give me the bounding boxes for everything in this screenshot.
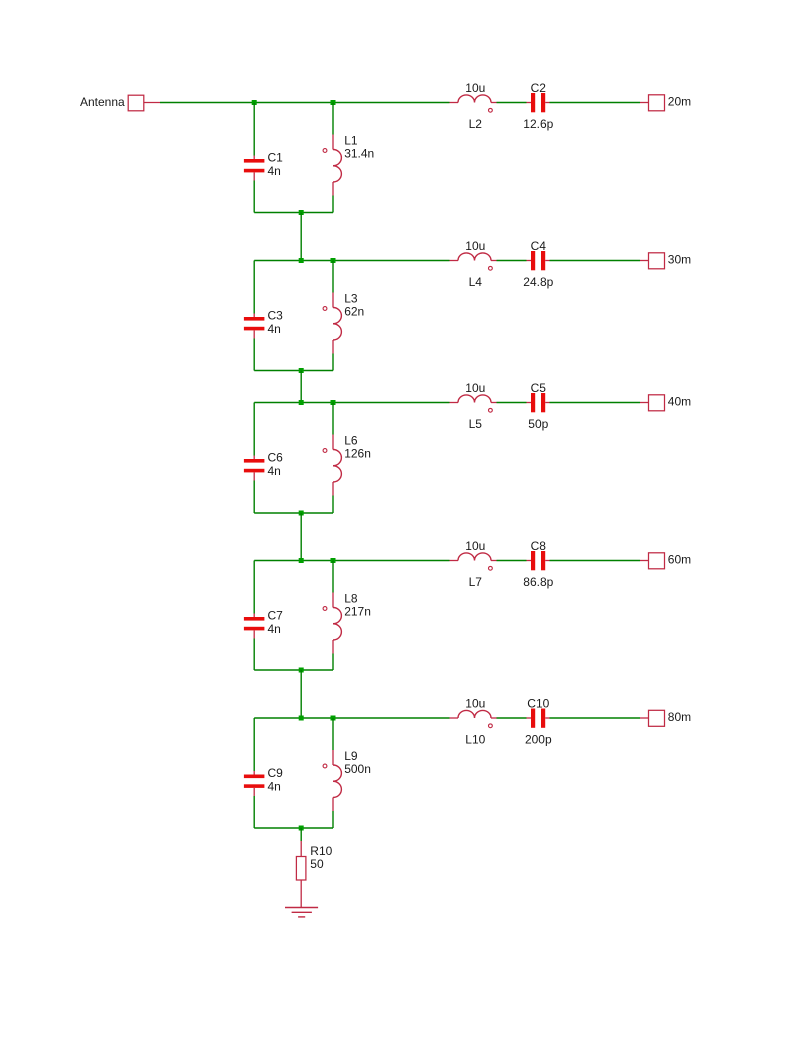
- svg-text:24.8p: 24.8p: [523, 275, 553, 289]
- resistor R10 value 50: [296, 841, 332, 908]
- port 80m (output terminal, square with label): [640, 710, 691, 726]
- svg-text:L1: L1: [344, 133, 358, 147]
- wire: row 4 shunt capacitor branch vertical: [253, 561, 255, 671]
- svg-text:200p: 200p: [525, 733, 552, 747]
- svg-text:L4: L4: [469, 275, 483, 289]
- node: junction rail 2 at interstage connector: [299, 258, 304, 263]
- wire: row 2 shunt inductor branch vertical: [332, 261, 334, 371]
- wire: interstage connector row 4 to row 5: [300, 670, 302, 718]
- svg-text:L7: L7: [469, 575, 483, 589]
- wire: row 2 shunt capacitor branch vertical: [253, 261, 255, 371]
- svg-text:Antenna: Antenna: [80, 95, 125, 109]
- svg-text:C6: C6: [268, 451, 284, 465]
- node: junction bottom wire row 1: [299, 210, 304, 215]
- svg-text:L9: L9: [344, 749, 358, 763]
- inductor L3 value 62n (shunt, with phase dot): [323, 291, 364, 353]
- wire: row 4 shunt inductor branch vertical: [332, 561, 334, 671]
- svg-text:C2: C2: [531, 81, 547, 95]
- svg-text:10u: 10u: [465, 239, 485, 253]
- svg-text:86.8p: 86.8p: [523, 575, 553, 589]
- svg-text:C3: C3: [268, 309, 284, 323]
- svg-text:R10: R10: [310, 844, 332, 858]
- wire: row 3 bottom wire (green): [254, 512, 333, 514]
- wire: row 4 top rail (green): [254, 560, 640, 562]
- port 60m (output terminal, square with label): [640, 552, 691, 568]
- wire: row 3 top rail (green): [254, 402, 640, 404]
- wire: row 1 shunt capacitor branch vertical: [253, 103, 255, 213]
- svg-text:217n: 217n: [344, 605, 371, 619]
- svg-text:31.4n: 31.4n: [344, 147, 374, 161]
- port 40m (output terminal, square with label): [640, 394, 691, 410]
- svg-text:50: 50: [310, 857, 324, 871]
- capacitor C3 value 4n (shunt): [244, 309, 283, 339]
- inductor L8 value 217n (shunt, with phase dot): [323, 591, 371, 653]
- capacitor C7 value 4n (shunt): [244, 609, 283, 639]
- svg-text:C9: C9: [268, 766, 284, 780]
- svg-text:12.6p: 12.6p: [523, 117, 553, 131]
- capacitor C6 value 4n (shunt): [244, 451, 283, 481]
- svg-text:80m: 80m: [668, 710, 691, 724]
- svg-text:50p: 50p: [528, 417, 548, 431]
- svg-text:4n: 4n: [268, 164, 281, 178]
- ground symbol: [285, 908, 318, 917]
- wire: interstage connector row 2 to row 3: [300, 371, 302, 403]
- node: junction rail 1 at cap branch: [252, 100, 257, 105]
- node: junction rail 3 at inductor branch: [331, 400, 336, 405]
- svg-text:C4: C4: [531, 239, 547, 253]
- svg-text:4n: 4n: [268, 779, 281, 793]
- svg-text:C10: C10: [527, 697, 549, 711]
- node: junction bottom wire row 4: [299, 668, 304, 673]
- port Antenna (input terminal, square with label): [80, 95, 160, 111]
- svg-text:L8: L8: [344, 591, 358, 605]
- svg-text:L3: L3: [344, 291, 358, 305]
- node: junction rail 5 at inductor branch: [331, 716, 336, 721]
- wire: row 3 shunt capacitor branch vertical: [253, 403, 255, 514]
- capacitor C5 value 50p (series): [527, 381, 550, 431]
- inductor L1 value 31.4n (shunt, with phase dot): [323, 133, 374, 195]
- node: junction rail 1 at inductor branch: [331, 100, 336, 105]
- wire: row 5 shunt inductor branch vertical: [332, 718, 334, 828]
- svg-text:C7: C7: [268, 609, 284, 623]
- svg-text:500n: 500n: [344, 762, 371, 776]
- wire: row 1 bottom wire (green): [254, 212, 333, 214]
- wire: row 5 top rail (green): [254, 717, 640, 719]
- svg-text:4n: 4n: [268, 622, 281, 636]
- wire: bottom node to resistor R10: [300, 828, 302, 841]
- port 20m (output terminal, square with label): [640, 94, 691, 110]
- wire: row 3 shunt inductor branch vertical: [332, 403, 334, 514]
- wire: row 5 shunt capacitor branch vertical: [253, 718, 255, 828]
- node: junction rail 4 at interstage connector: [299, 558, 304, 563]
- inductor L10 value 10u (series, with phase dot): [450, 697, 497, 747]
- inductor L4 value 10u (series, with phase dot): [450, 239, 497, 289]
- svg-text:30m: 30m: [668, 252, 691, 266]
- capacitor C2 value 12.6p (series): [523, 81, 553, 131]
- capacitor C10 value 200p (series): [525, 697, 552, 747]
- wire: row 2 bottom wire (green): [254, 370, 333, 372]
- svg-text:L10: L10: [465, 733, 485, 747]
- wire: row 4 bottom wire (green): [254, 669, 333, 671]
- capacitor C4 value 24.8p (series): [523, 239, 553, 289]
- node: junction rail 5 at interstage connector: [299, 716, 304, 721]
- wire: row 5 bottom wire (green): [254, 827, 333, 829]
- svg-text:10u: 10u: [465, 81, 485, 95]
- svg-text:10u: 10u: [465, 381, 485, 395]
- svg-text:C1: C1: [268, 151, 284, 165]
- svg-text:126n: 126n: [344, 447, 371, 461]
- svg-text:C8: C8: [531, 539, 547, 553]
- node: junction rail 2 at inductor branch: [331, 258, 336, 263]
- svg-text:C5: C5: [531, 381, 547, 395]
- capacitor C8 value 86.8p (series): [523, 539, 553, 589]
- svg-text:62n: 62n: [344, 305, 364, 319]
- wire: interstage connector row 3 to row 4: [300, 513, 302, 561]
- capacitor C9 value 4n (shunt): [244, 766, 283, 796]
- inductor L9 value 500n (shunt, with phase dot): [323, 749, 371, 811]
- inductor L5 value 10u (series, with phase dot): [450, 381, 497, 431]
- wire: row 1 shunt inductor branch vertical: [332, 103, 334, 213]
- wire: row 1 top rail (green): [160, 102, 640, 104]
- inductor L6 value 126n (shunt, with phase dot): [323, 433, 371, 495]
- node: junction rail 4 at inductor branch: [331, 558, 336, 563]
- svg-text:60m: 60m: [668, 552, 691, 566]
- wire: row 2 top rail (green): [254, 260, 640, 262]
- inductor L2 value 10u (series, with phase dot): [450, 81, 497, 131]
- node: junction bottom wire row 5: [299, 826, 304, 831]
- node: junction rail 3 at interstage connector: [299, 400, 304, 405]
- capacitor C1 value 4n (shunt): [244, 151, 283, 181]
- svg-text:4n: 4n: [268, 322, 281, 336]
- port 30m (output terminal, square with label): [640, 252, 691, 268]
- inductor L7 value 10u (series, with phase dot): [450, 539, 497, 589]
- svg-text:L5: L5: [469, 417, 483, 431]
- svg-text:10u: 10u: [465, 697, 485, 711]
- svg-text:20m: 20m: [668, 94, 691, 108]
- svg-text:10u: 10u: [465, 539, 485, 553]
- svg-text:L2: L2: [469, 117, 483, 131]
- svg-text:40m: 40m: [668, 394, 691, 408]
- svg-text:4n: 4n: [268, 464, 281, 478]
- node: junction bottom wire row 3: [299, 511, 304, 516]
- node: junction bottom wire row 2: [299, 368, 304, 373]
- wire: interstage connector row 1 to row 2: [300, 213, 302, 261]
- svg-text:L6: L6: [344, 433, 358, 447]
